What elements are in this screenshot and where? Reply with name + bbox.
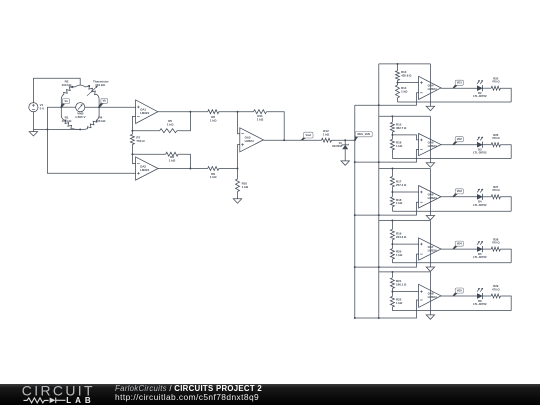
junction REG_VAN bus: [354, 139, 356, 141]
ground stage 3: [429, 211, 431, 215]
svg-text:750 Ω: 750 Ω: [136, 139, 145, 143]
node Vout flag: [301, 137, 307, 141]
svg-text:VD3: VD3: [457, 189, 463, 193]
svg-text:1 kΩ: 1 kΩ: [396, 253, 403, 257]
wire REG_VAN vertical bus: [354, 105, 356, 318]
logo resistor zigzag: [24, 398, 49, 403]
resistor R1 (bridge bottom-left arm): [61, 107, 64, 120]
wire V1 top to bridge top: [33, 78, 80, 102]
wire stage 4 box top: [379, 220, 431, 222]
logo diode symbol: [50, 398, 56, 404]
svg-text:470 Ω: 470 Ω: [492, 136, 500, 140]
svg-text:LM324: LM324: [428, 295, 437, 299]
wire REG_VAN tap to - input stage 4: [355, 254, 419, 267]
op-amp OA5: [419, 134, 441, 156]
svg-text:LM324: LM324: [428, 144, 437, 148]
op-amp OA6: [419, 186, 441, 209]
svg-text:LM324: LM324: [428, 87, 437, 91]
svg-text:1 kΩ: 1 kΩ: [210, 175, 217, 179]
wire ground rail stage 3: [392, 210, 511, 212]
wire R9 to OA3 node: [219, 168, 238, 170]
wire loop return stage 2: [500, 145, 511, 159]
op-amp OA1: [136, 100, 158, 124]
wire loop return stage 5: [500, 296, 511, 311]
wire divider midpoint to op-amp + input: [392, 291, 418, 293]
resistor R26 470: [491, 143, 500, 147]
wire REG_VAN tap to - input stage 2: [355, 149, 419, 162]
resistor R2 (bridge top-left arm): [71, 85, 81, 87]
node flag VD2: [453, 141, 459, 145]
svg-text:470 Ω: 470 Ω: [492, 241, 500, 245]
resistor R8 feedback: [132, 153, 165, 155]
node Vb flag: [99, 102, 105, 107]
resistor R15 divider top: [391, 116, 393, 122]
ground stage 4: [429, 263, 431, 267]
resistor R5 feedback: [132, 130, 159, 132]
svg-text:LTL-30702: LTL-30702: [473, 94, 487, 98]
svg-text:VD2: VD2: [457, 137, 463, 141]
junction node OA3 non-inverting: [237, 168, 239, 170]
resistor R28 470: [491, 247, 500, 251]
svg-text:1 kΩ: 1 kΩ: [401, 89, 408, 93]
resistor R10 to ground: [236, 179, 240, 192]
node flag VD1: [453, 84, 459, 88]
wire loop return stage 3: [500, 197, 511, 211]
wire op-amp output stage 2: [441, 144, 478, 146]
wire LED to resistor R26: [482, 144, 491, 146]
wire OA1 output: [158, 111, 208, 113]
resistor R9: [208, 167, 219, 171]
op-amp OA2: [136, 157, 159, 180]
svg-text:VD1: VD1: [457, 81, 463, 85]
wire op-amp output stage 5: [441, 295, 478, 297]
svg-text:257.4 Ω: 257.4 Ω: [396, 183, 407, 187]
resistor R29 470: [491, 294, 500, 298]
wire OA2 inverting input hook: [132, 154, 135, 163]
wire LED to resistor R29: [482, 295, 491, 297]
junction dots stage 4: [391, 220, 393, 222]
junction dots stage 5: [391, 271, 393, 273]
svg-text:1.565 V: 1.565 V: [75, 115, 85, 119]
wire stage 1 box right edge: [429, 64, 431, 102]
resistor R27 470: [491, 195, 500, 199]
wire bridge right rail to OA1: [85, 106, 136, 108]
wire divider midpoint to op-amp + input: [392, 135, 418, 140]
resistor R14 divider bottom: [396, 85, 400, 98]
wire ground rail stage 4: [392, 262, 511, 264]
ground stage 1: [429, 102, 431, 106]
svg-text:5 V: 5 V: [40, 106, 45, 110]
svg-text:224.3 Ω: 224.3 Ω: [396, 235, 407, 239]
svg-text:100 kΩ: 100 kΩ: [62, 83, 73, 87]
ground stage 5: [429, 311, 431, 315]
voltage source V1: [29, 103, 38, 112]
svg-text:1 kΩ: 1 kΩ: [242, 185, 249, 189]
resistor R12: [322, 138, 332, 142]
wire ground rail stage 1: [398, 101, 512, 103]
resistor R17 divider top: [391, 169, 393, 177]
LED D6 LTL-30702: [477, 294, 482, 299]
svg-text:LTL-30702: LTL-30702: [473, 151, 487, 155]
resistor R18 divider bottom: [390, 197, 394, 207]
wire OA1 inverting input hook: [132, 116, 135, 130]
svg-text:LM324: LM324: [140, 168, 149, 172]
wire divider midpoint to op-amp + input: [398, 82, 419, 84]
resistor R13 divider top: [397, 64, 399, 71]
junction dots stage 3: [391, 168, 393, 170]
svg-text:LTL-30702: LTL-30702: [473, 302, 487, 306]
wire loop return stage 4: [500, 249, 511, 263]
LED D3 LTL-30702: [477, 142, 482, 147]
svg-text:LM324: LM324: [428, 196, 437, 200]
svg-text:100 kΩ: 100 kΩ: [62, 119, 73, 123]
svg-text:1 kΩ: 1 kΩ: [169, 158, 176, 162]
svg-text:REG_VAN: REG_VAN: [358, 132, 370, 136]
svg-text:196.1 Ω: 196.1 Ω: [396, 283, 407, 287]
junction dots bridge: [60, 106, 62, 108]
svg-text:1 kΩ: 1 kΩ: [257, 117, 264, 121]
wire OA3 output: [263, 139, 321, 141]
wire LED to resistor R28: [482, 248, 491, 250]
svg-text:1 kΩ: 1 kΩ: [396, 144, 403, 148]
ground stage 2: [429, 159, 431, 163]
junction: [131, 130, 133, 132]
svg-text:434 kΩ: 434 kΩ: [95, 83, 106, 87]
wire bridge left rail: [61, 106, 75, 108]
svg-text:http://circuitlab.com/c5nf78dn: http://circuitlab.com/c5nf78dnxt8q9: [115, 392, 259, 402]
svg-text:Vb: Vb: [103, 99, 107, 103]
svg-text:470 Ω: 470 Ω: [492, 80, 500, 84]
junction dots stage 2: [391, 115, 393, 117]
svg-text:1 kΩ: 1 kΩ: [396, 301, 403, 305]
svg-text:435.8 Ω: 435.8 Ω: [401, 74, 412, 78]
wire stage 5 box right edge: [429, 272, 431, 311]
wire op-amp output stage 3: [441, 196, 478, 198]
svg-text:1N4733A: 1N4733A: [332, 145, 342, 148]
thermistor (bridge top-right arm): [80, 85, 90, 87]
resistor R19 divider top: [391, 221, 393, 230]
node flag VD5: [453, 292, 459, 296]
LED D2 LTL-30702: [477, 86, 482, 91]
svg-text:Vout: Vout: [306, 133, 312, 137]
wire node Va down to OA2: [47, 107, 135, 173]
wire ground rail stage 2: [392, 158, 511, 160]
resistor R16 divider bottom: [390, 139, 394, 150]
node flag VD4: [453, 245, 459, 249]
wire REG_VAN tap to - input stage 3: [355, 202, 419, 215]
svg-text:LM324: LM324: [140, 111, 149, 115]
wire stage 4 box right edge: [429, 221, 431, 263]
svg-text:VD4: VD4: [457, 242, 463, 246]
resistor R20 divider bottom: [390, 249, 394, 260]
junction zener node: [344, 139, 346, 141]
resistor R22 divider bottom: [390, 296, 394, 307]
svg-text:1 kΩ: 1 kΩ: [167, 122, 174, 126]
ground: [237, 195, 239, 199]
wire loop return stage 1: [500, 88, 511, 102]
resistor R4 (bridge bottom-right arm): [96, 107, 99, 120]
resistor R25 470: [491, 86, 500, 90]
wire to OA3 inverting input: [238, 112, 240, 134]
op-amp OA8: [419, 284, 441, 307]
LED D5 LTL-30702: [477, 247, 482, 252]
voltmeter VM5: [76, 103, 85, 112]
svg-text:470 Ω: 470 Ω: [492, 287, 500, 291]
resistor R7 gain: [130, 134, 134, 144]
LED D4 LTL-30702: [477, 195, 482, 200]
junction R11 to output: [283, 139, 285, 141]
wire stage 2 box top: [379, 115, 431, 117]
zener diode D1 1N4733A: [344, 140, 346, 145]
wire divider midpoint to op-amp + input: [392, 243, 418, 245]
svg-text:1 kΩ: 1 kΩ: [210, 118, 217, 122]
node junction: [46, 128, 48, 130]
wire ground rail: [33, 128, 80, 130]
wire REG_VAN tap to - input stage 5: [355, 300, 419, 318]
resistor R21 divider top: [391, 272, 393, 278]
wire stage 3 box right edge: [429, 169, 431, 212]
wire op-amp output stage 1: [441, 87, 478, 89]
svg-text:LTL-30702: LTL-30702: [473, 203, 487, 207]
svg-text:LAB: LAB: [66, 396, 94, 405]
ground: [32, 129, 34, 131]
wire divider midpoint to op-amp + input: [392, 191, 418, 193]
wire to OA3 non-inverting input: [238, 145, 240, 169]
svg-text:VD5: VD5: [457, 288, 463, 292]
svg-text:LM324: LM324: [428, 248, 437, 252]
wire stage 5 box top: [379, 271, 431, 273]
svg-text:LM324: LM324: [245, 139, 254, 143]
wire ground rail stage 5: [392, 310, 511, 312]
resistor R11 feedback: [254, 110, 267, 114]
wire LED to resistor R25: [482, 87, 491, 89]
wire V1 bottom to ground rail: [32, 112, 34, 129]
node flag VD3: [453, 193, 459, 197]
node Va flag: [61, 103, 66, 108]
svg-text:470 Ω: 470 Ω: [492, 188, 500, 192]
wire REG_VAN tap to - input stage 1: [355, 93, 419, 105]
wire LED to resistor R27: [482, 196, 491, 198]
wire reference vertical bus: [378, 64, 380, 318]
wire stage 1 box top: [379, 63, 431, 65]
svg-text:362.7 Ω: 362.7 Ω: [396, 126, 407, 130]
node REG_VAN flag: [354, 136, 359, 141]
svg-text:LTL-30702: LTL-30702: [473, 255, 487, 259]
resistor R6: [208, 110, 219, 114]
ground: [341, 161, 349, 165]
wire stage 3 box top: [379, 168, 431, 170]
op-amp OA3: [240, 128, 264, 152]
op-amp OA4: [419, 76, 441, 99]
svg-text:1 kΩ: 1 kΩ: [323, 132, 330, 136]
op-amp OA7: [419, 238, 441, 260]
junction dots stage 1: [397, 63, 399, 65]
svg-text:100 kΩ: 100 kΩ: [95, 119, 106, 123]
junction: [131, 153, 133, 155]
svg-text:1 kΩ: 1 kΩ: [396, 201, 403, 205]
wire op-amp output stage 4: [441, 248, 478, 250]
wire stage 2 box right edge: [429, 116, 431, 158]
wire OA2 output: [158, 168, 208, 170]
wire R6 to OA3 node: [219, 111, 254, 113]
junction node OA3 inverting: [237, 111, 239, 113]
